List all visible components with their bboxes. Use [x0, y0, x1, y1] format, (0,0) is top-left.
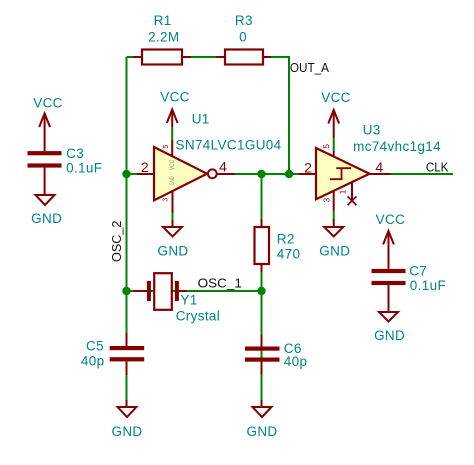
svg-text:OSC_1: OSC_1: [198, 275, 242, 290]
svg-text:3: 3: [323, 197, 332, 202]
net label OSC_1: [198, 275, 242, 290]
label U1 reference: [192, 111, 210, 126]
capacitor C3: [28, 114, 62, 196]
net label OUT_A: [290, 60, 329, 75]
svg-text:SN74LVC1GU04: SN74LVC1GU04: [176, 137, 282, 152]
label R3 reference: [235, 13, 253, 28]
U3 pin number 1: [339, 189, 348, 194]
svg-text:GND: GND: [111, 424, 142, 439]
svg-text:470: 470: [277, 247, 301, 262]
svg-text:CLK: CLK: [426, 160, 449, 175]
resistor R3: [216, 50, 271, 65]
svg-text:2: 2: [304, 160, 312, 176]
svg-text:GND: GND: [374, 328, 405, 343]
label C3 value 0.1uF: [66, 161, 102, 176]
svg-text:2.2M: 2.2M: [148, 29, 179, 44]
svg-text:VCC: VCC: [376, 212, 406, 227]
svg-text:VCC: VCC: [321, 90, 351, 105]
svg-text:U3: U3: [363, 123, 381, 138]
label R1 reference: [154, 13, 172, 28]
svg-text:40p: 40p: [284, 354, 308, 369]
wire: U1 VCC stub: [171, 127, 173, 140]
label Y1 reference: [180, 292, 197, 307]
wire: C6 column: [261, 291, 263, 402]
label GND (C3): [31, 211, 62, 226]
svg-text:GND: GND: [31, 211, 62, 226]
svg-text:GND: GND: [319, 243, 350, 258]
label C5 reference: [86, 338, 104, 353]
label U3 reference: [363, 123, 381, 138]
ground symbol below U1: [163, 220, 182, 237]
svg-text:OUT_A: OUT_A: [290, 60, 329, 75]
VCC symbol above U1: [167, 110, 178, 128]
svg-text:R3: R3: [235, 13, 253, 28]
wire: R2 bottom to OSC_1 node: [261, 270, 263, 291]
svg-text:2: 2: [141, 159, 149, 175]
resistor R2: [255, 219, 270, 272]
svg-text:0.1uF: 0.1uF: [66, 161, 102, 176]
svg-text:4: 4: [375, 159, 383, 175]
junction at U1 output / R2: [257, 170, 265, 178]
svg-text:U1: U1: [192, 111, 210, 126]
svg-text:OSC_2: OSC_2: [109, 221, 124, 262]
label R1 value 2.2M: [148, 29, 179, 44]
capacitor C5: [110, 333, 145, 375]
wire: R2 top connection: [261, 174, 263, 221]
svg-text:VCC: VCC: [169, 160, 176, 170]
label C7 value 0.1uF: [410, 278, 446, 293]
U1 pin number 2: [141, 159, 149, 175]
label U3 value mc74vhc1g14: [353, 139, 441, 154]
label C6 value 40p: [284, 354, 308, 369]
net label OSC_2 (vertical): [109, 221, 124, 262]
svg-text:0.1uF: 0.1uF: [410, 278, 446, 293]
svg-text:40p: 40p: [81, 354, 105, 369]
svg-text:5: 5: [163, 145, 170, 149]
label C3 reference: [66, 146, 84, 161]
junction at crystal / R2 / C6: [257, 287, 265, 295]
capacitor C6: [245, 335, 280, 375]
transistor-like gate U3 schmitt inverter mc74vhc1g14: [298, 148, 390, 211]
VCC symbol above U3: [328, 110, 339, 138]
label GND (C6): [246, 424, 277, 439]
label VCC (C3): [33, 95, 63, 110]
ground symbol below C6: [253, 400, 272, 417]
ground symbol below C3: [36, 195, 55, 205]
svg-text:VCC: VCC: [33, 95, 63, 110]
wire: U1 output to U3 input and CLK run: [217, 173, 453, 175]
label GND (C5): [111, 424, 142, 439]
ground symbol below U3: [324, 219, 343, 237]
U1 inner pin name GND: [169, 176, 176, 185]
svg-text:VCC: VCC: [160, 90, 190, 105]
U1 inner pin name VCC: [169, 160, 176, 170]
wire: U3 VCC stub: [333, 138, 335, 151]
svg-text:0: 0: [239, 29, 247, 44]
svg-text:R1: R1: [154, 13, 172, 28]
junction at feedback rail / U3 input: [285, 170, 293, 178]
svg-text:GND: GND: [157, 243, 188, 258]
wire: U3 GND stub: [333, 211, 335, 220]
U1 pin number 5: [163, 145, 170, 149]
wire: left vertical rail (OSC_2 net): [126, 57, 128, 346]
svg-text:C5: C5: [86, 338, 104, 353]
label U1 value SN74LVC1GU04: [176, 137, 282, 152]
net label CLK: [426, 160, 449, 175]
junction at left rail / U1 input: [122, 170, 130, 178]
label VCC (U1): [160, 90, 190, 105]
label R2 value 470: [277, 247, 301, 262]
label GND (U3): [319, 243, 350, 258]
wire: C5 bottom to ground: [126, 374, 128, 402]
label R3 value 0: [239, 29, 247, 44]
U3 pin number 3: [323, 197, 332, 202]
crystal Y1: [133, 273, 187, 310]
VCC symbol above C7: [383, 231, 394, 245]
U3 no-connect X on pin 1: [348, 196, 357, 205]
label C6 reference: [284, 341, 302, 356]
label C5 value 40p: [81, 354, 105, 369]
resistor R1: [133, 50, 191, 65]
wire: crystal row OSC_1 net: [127, 290, 262, 292]
U3 pin number 5: [322, 144, 331, 149]
label C7 reference: [409, 263, 427, 278]
ground symbol below C5: [118, 400, 137, 417]
label Y1 value Crystal: [176, 309, 220, 324]
U1 pin number 4: [219, 158, 227, 174]
svg-text:5: 5: [322, 144, 331, 149]
svg-text:C7: C7: [409, 263, 427, 278]
svg-text:R2: R2: [277, 231, 295, 246]
svg-text:1: 1: [339, 189, 348, 194]
label VCC (U3): [321, 90, 351, 105]
junction at left rail / crystal: [122, 287, 130, 295]
svg-text:Y1: Y1: [180, 292, 197, 307]
svg-text:4: 4: [219, 158, 227, 174]
wire: U1 input stub from left rail: [127, 173, 141, 175]
label GND (C7): [374, 328, 405, 343]
svg-text:GND: GND: [169, 176, 176, 185]
svg-text:3: 3: [162, 198, 169, 202]
U1 pin number 3: [162, 198, 169, 202]
label GND (U1): [157, 243, 188, 258]
U3 pin number 2: [304, 160, 312, 176]
capacitor C7: [372, 231, 406, 312]
svg-text:Crystal: Crystal: [176, 309, 220, 324]
U3 pin number 4: [375, 159, 383, 175]
VCC symbol above C3: [39, 114, 50, 128]
label R2 reference: [277, 231, 295, 246]
op-amp U1 inverter SN74LVC1GU04: [137, 140, 235, 213]
svg-text:GND: GND: [246, 424, 277, 439]
ground symbol below C7: [379, 312, 398, 322]
wire: U1 GND stub: [172, 213, 174, 221]
label VCC (C7): [376, 212, 406, 227]
svg-text:mc74vhc1g14: mc74vhc1g14: [353, 139, 441, 154]
svg-text:C3: C3: [66, 146, 84, 161]
wire: top feedback bus from left rail through R1/R3 to right rail: [127, 57, 290, 174]
